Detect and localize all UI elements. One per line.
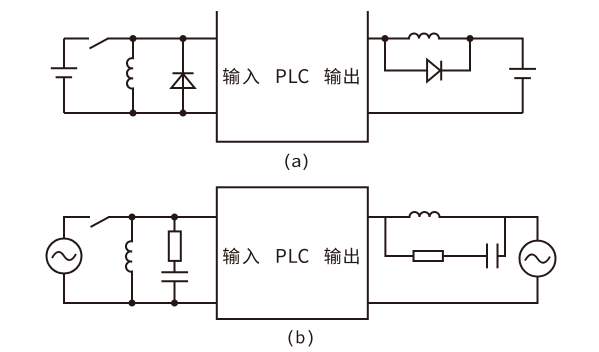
inductor L1 [127,39,133,114]
diode VD1 (zener clamp) [171,39,194,114]
node dots input (b) [129,214,179,307]
AC source G2 [520,241,556,277]
wire bottom-left (a) [64,112,217,114]
switch S2 [91,217,110,227]
label PLC (b) [277,249,309,263]
label PLC (a) [277,69,309,83]
inductor L3 [126,217,132,303]
capacitor C1 [161,272,188,303]
resistor R2 [385,217,487,261]
capacitor C2 [487,217,505,268]
wire output top (a) with inductor L2 [368,34,523,69]
wire bottom-right (b) [368,277,538,303]
wire switch to node (b) [108,216,217,218]
node dots input (a) [130,35,187,117]
label 输入 (a) [223,68,259,85]
diode VD2 freewheel branch [385,39,470,82]
label 输出 (a) [324,68,358,85]
wire top-left (a) [64,38,89,40]
battery B2 [509,69,536,113]
resistor R1 [169,217,181,272]
wire switch to node (a) [107,38,217,40]
node dots output (a) [382,35,474,42]
wire bottom-right (a) [368,112,523,114]
wire AC to switch (b) [64,217,90,239]
label 输出 (b) [324,248,358,265]
switch S1 [90,39,109,49]
caption (b) [289,330,313,347]
wire bottom-left (b) [64,274,217,304]
caption (a) [285,154,307,171]
battery B1 [51,39,77,114]
PLC box U2 (b) [217,187,368,319]
wire output top (b) with inductor L4 [368,212,538,241]
label 输入 (b) [223,248,259,265]
PLC box U1 (a) [217,11,368,142]
AC source G1 [47,239,82,274]
